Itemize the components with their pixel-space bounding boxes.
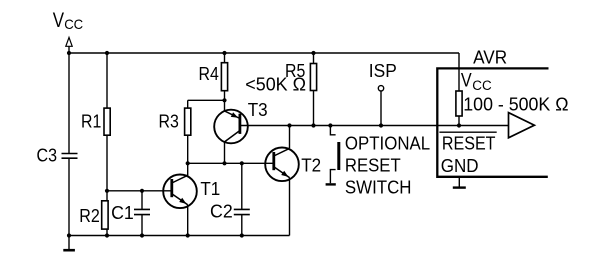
transistor T2 (265, 148, 299, 182)
resistor R5 (310, 64, 316, 91)
node ground left (67, 233, 71, 237)
wire pullup bottom (458, 116, 460, 126)
node top-left corner (67, 51, 71, 55)
wire top rail Vcc (69, 52, 459, 54)
svg-text:T2: T2 (301, 155, 321, 175)
wire R5 column (313, 53, 315, 126)
node R5 bottom (311, 123, 315, 127)
AVR box outline (437, 68, 548, 176)
wire T3 collector drop (224, 142, 226, 163)
node C1 top (140, 189, 144, 193)
node switch tap (328, 123, 332, 127)
AVR ground bar (453, 186, 466, 188)
svg-text:RESET: RESET (442, 134, 496, 154)
capacitor C3 (62, 154, 78, 159)
wire C1 column (141, 191, 143, 236)
wire T2 base line (188, 162, 274, 164)
wire Vcc stub (68, 46, 70, 53)
RESET overbar (439, 131, 496, 133)
Vcc arrow symbol (66, 37, 72, 46)
svg-text:V: V (53, 9, 64, 32)
capacitor C2 (234, 209, 250, 214)
wire left column upper (68, 53, 70, 154)
wire T2 emitter drop (289, 178, 291, 236)
wire ISP drop (380, 91, 382, 126)
svg-text:V: V (461, 71, 472, 92)
wire C2 column (241, 163, 243, 235)
resistor R3 (185, 108, 191, 135)
svg-text:<50K Ω: <50K Ω (245, 74, 306, 94)
wire R4 column (224, 53, 226, 111)
ground (left rail) (63, 236, 75, 251)
svg-text:R2: R2 (79, 206, 100, 226)
resistor pullup 100-500K (456, 91, 462, 116)
resistor R2 (102, 201, 108, 229)
svg-text:C2: C2 (210, 202, 233, 222)
label Vcc top-left (53, 9, 83, 32)
switch (optional reset) (326, 126, 339, 185)
wire R1 R2 column (106, 53, 108, 236)
node pullup bottom (457, 123, 461, 127)
ISP pin circle (378, 86, 383, 91)
transistor T1 (163, 175, 197, 209)
svg-text:C1: C1 (111, 203, 134, 223)
svg-text:ISP: ISP (369, 61, 397, 81)
node R1 R2 junction (105, 189, 109, 193)
svg-text:R3: R3 (159, 112, 179, 132)
capacitor C1 (134, 209, 150, 214)
node R4 top (222, 51, 226, 55)
node R5 top (311, 51, 315, 55)
wire AVR Vcc feed (458, 53, 460, 91)
svg-text:GND: GND (441, 156, 479, 176)
svg-text:CC: CC (472, 78, 492, 93)
node C2 top (240, 161, 244, 165)
wire AVR ground stub (458, 177, 460, 187)
node C1 bottom (140, 233, 144, 237)
node R3 bottom T1 collector (186, 161, 190, 165)
wire RESET net (240, 125, 509, 127)
svg-text:T3: T3 (248, 100, 268, 120)
wire left column lower (68, 158, 70, 235)
wire T1 base line (107, 190, 172, 192)
wire T2 collector rise (289, 126, 291, 149)
svg-text:C3: C3 (37, 146, 58, 166)
svg-text:OPTIONAL: OPTIONAL (345, 134, 430, 154)
node R1 top (105, 51, 109, 55)
transistor T3 (214, 110, 248, 144)
node R4 bottom R3 T3 (222, 98, 226, 102)
svg-text:T1: T1 (200, 179, 220, 199)
buffer gate triangle U1 (509, 113, 535, 138)
svg-text:RESET: RESET (345, 156, 401, 176)
svg-text:CC: CC (64, 16, 83, 32)
svg-text:R4: R4 (199, 64, 219, 84)
svg-text:100 - 500K Ω: 100 - 500K Ω (463, 95, 568, 115)
wire R3 to R4 link (188, 99, 225, 101)
wire T1 emitter drop (187, 205, 189, 236)
wire bottom ground rail (69, 235, 290, 237)
svg-text:R1: R1 (81, 112, 101, 132)
node R2 bottom (105, 233, 109, 237)
node T3 collector (222, 161, 226, 165)
node T2 collector reset net (287, 123, 291, 127)
node T1 emitter (186, 233, 190, 237)
node ISP tap (379, 123, 383, 127)
resistor R1 (104, 108, 110, 135)
wire R3 column (187, 100, 189, 176)
resistor R4 (221, 63, 227, 91)
node C2 bottom (240, 233, 244, 237)
svg-text:AVR: AVR (473, 47, 507, 68)
label Vcc in box (461, 71, 492, 93)
svg-text:SWITCH: SWITCH (345, 178, 412, 198)
